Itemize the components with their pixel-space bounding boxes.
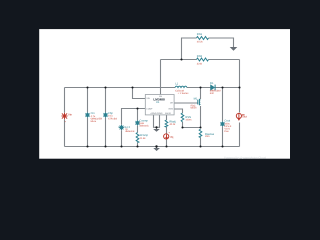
junction dot rail/VIN pin	[131, 86, 133, 88]
wire: Cout branch	[222, 88, 224, 147]
svg-text:Powered by SystemVision Cloud: Powered by SystemVision Cloud	[224, 156, 267, 159]
wire: FA/SD pin drop	[166, 115, 168, 147]
svg-text:+ 1 Series: + 1 Series	[178, 92, 190, 95]
svg-text:RN1: RN1	[197, 33, 203, 36]
svg-text:M1: M1	[194, 97, 198, 100]
svg-text:340: 340	[210, 92, 215, 95]
wire: FB node horizontal	[161, 59, 240, 61]
transistor M1	[191, 97, 201, 109]
junction dot FB node	[180, 58, 182, 60]
svg-text:100m: 100m	[185, 119, 191, 122]
junction dot bus/Ifq	[165, 145, 167, 147]
svg-text:645N: 645N	[191, 107, 197, 110]
ground arrow AGND/PGND	[153, 129, 160, 132]
junction dot bus/Cbp	[104, 145, 106, 147]
resistor RN2	[197, 58, 209, 61]
junction dot rail/Cout	[221, 86, 223, 88]
svg-text:X7R diel: X7R diel	[108, 117, 118, 120]
resistor Rsense	[199, 129, 214, 138]
wire: Rsense bottom stub	[200, 138, 202, 147]
wire: right Vout bus	[239, 60, 241, 147]
svg-text:D1: D1	[210, 82, 214, 85]
svg-text:RN2: RN2	[197, 55, 203, 58]
svg-text:dielectric: dielectric	[125, 130, 135, 133]
svg-text:Mura: Mura	[91, 120, 97, 123]
resistor Rfa	[165, 120, 176, 127]
svg-text:dielectric: dielectric	[139, 124, 149, 127]
capacitor Cout (X symbol)	[220, 120, 232, 134]
dark page background	[0, 0, 320, 186]
svg-text:COMP: COMP	[146, 107, 153, 110]
wire: COMP pin wire	[122, 109, 146, 147]
svg-text:40.2k: 40.2k	[197, 41, 204, 44]
diode D1	[210, 82, 222, 95]
wire: bottom ground bus	[65, 146, 240, 148]
svg-text:L1: L1	[175, 82, 178, 85]
wire: MOSFET drain stub	[200, 88, 202, 100]
capacitor Ccomp2 (X symbol)	[118, 125, 135, 133]
svg-text:21.5k: 21.5k	[140, 137, 147, 140]
svg-text:Ifq: Ifq	[170, 135, 174, 139]
wire: FB riser crossing rail	[160, 60, 162, 95]
white schematic canvas	[39, 29, 290, 159]
wire: ISEN node horizontal	[183, 127, 201, 129]
svg-text:40.2k: 40.2k	[169, 123, 176, 126]
junction dot ISEN node right	[199, 126, 201, 128]
ground arrow for RN1	[230, 47, 238, 51]
svg-text:324k: 324k	[197, 62, 203, 65]
wire: VIN pin riser	[133, 88, 146, 99]
junction dot bus/ground	[155, 145, 157, 147]
junction dot rail/right bus	[238, 86, 240, 88]
wire: Cin branch	[87, 88, 89, 147]
wire: Cbp branch	[105, 88, 107, 147]
svg-text:ISEN: ISEN	[168, 108, 173, 111]
wire: RN1 branch	[182, 38, 234, 60]
svg-text:Iout: Iout	[242, 115, 247, 119]
junction dot bus/C1	[120, 145, 122, 147]
capacitor Cin (X symbol)	[85, 112, 102, 123]
junction dot bus/Rcomp	[136, 145, 138, 147]
junction dot rail/Cbp	[104, 86, 106, 88]
junction dot COMP node	[136, 107, 138, 109]
source Iout (red circle load)	[236, 113, 247, 120]
wire: RSN branch from ISEN pin	[174, 109, 182, 128]
svg-text:VIN: VIN	[146, 97, 150, 100]
junction dot bus/Cout	[221, 145, 223, 147]
resistor Rcomp	[136, 133, 148, 143]
svg-text:U1: U1	[156, 101, 160, 104]
junction dot rail/Cin	[86, 86, 88, 88]
ground arrow bottom bus	[153, 147, 160, 152]
svg-text:PGND: PGND	[157, 112, 163, 115]
capacitor Ccomp (X symbol)	[135, 119, 149, 127]
junction dot AGND tie	[155, 126, 157, 128]
resistor RN1	[197, 37, 209, 40]
svg-text:FA/SD: FA/SD	[165, 112, 171, 115]
inductor L1	[175, 86, 187, 87]
resistor RSN	[181, 113, 191, 122]
svg-text:20m: 20m	[205, 135, 210, 138]
wire: VIN rail top bus	[65, 87, 240, 89]
junction dot rail/drain	[199, 86, 201, 88]
wire: Vin source left branch	[64, 88, 66, 147]
svg-text:Pan: Pan	[224, 130, 229, 133]
source Ifq (red circle current source)	[164, 131, 174, 139]
junction dot bus/Rsense	[199, 145, 201, 147]
IC U1 LM3488 box	[145, 95, 174, 116]
wire: MOSFET source stub	[200, 106, 202, 128]
source Vin (red X symbol)	[62, 112, 73, 123]
svg-text:Vin: Vin	[68, 112, 72, 116]
wire: Ccomp/Rcomp branch	[137, 109, 139, 147]
junction dot bus/Cin	[86, 145, 88, 147]
wire: AGND PGND pin drops	[154, 115, 160, 129]
capacitor Cbp (X symbol)	[103, 112, 117, 121]
junction dot ISEN node left	[181, 126, 183, 128]
wire: DR gate wire	[174, 102, 198, 104]
